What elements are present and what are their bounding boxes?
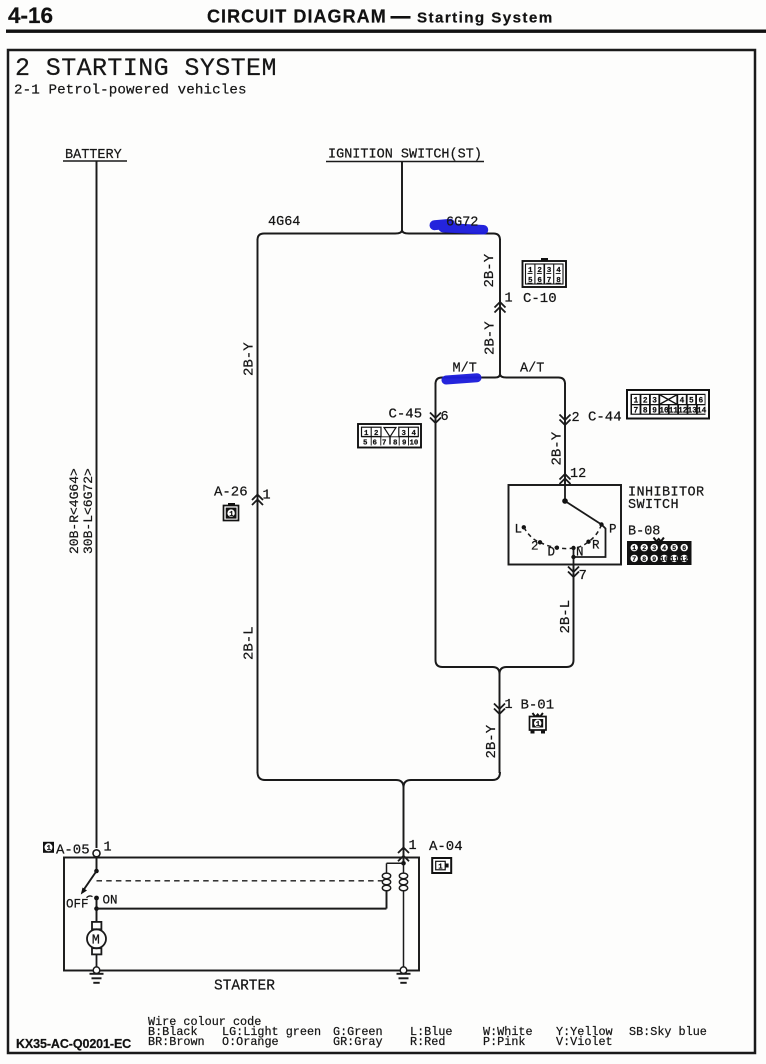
svg-text:11: 11 xyxy=(670,556,678,564)
svg-text:A-05: A-05 xyxy=(56,843,90,859)
wire merge brace MT/AT xyxy=(436,660,574,674)
svg-text:1: 1 xyxy=(364,430,369,438)
svg-text:7: 7 xyxy=(633,407,638,415)
svg-text:5: 5 xyxy=(363,440,368,448)
svg-text:2B-Y: 2B-Y xyxy=(483,321,499,355)
connector C-45 xyxy=(358,424,421,448)
svg-text:N: N xyxy=(576,546,584,560)
wire M/T branch vertical xyxy=(435,383,437,660)
svg-text:A/T: A/T xyxy=(520,362,544,377)
svg-text:11: 11 xyxy=(669,407,679,415)
wire solenoid feed xyxy=(97,908,387,910)
svg-text:1: 1 xyxy=(536,721,540,729)
svg-text:STARTER: STARTER xyxy=(214,979,275,995)
connector C-44 arrow xyxy=(560,415,571,426)
svg-text:P:Pink: P:Pink xyxy=(483,1035,525,1049)
wire inhibitor exit xyxy=(573,565,575,661)
svg-text:10: 10 xyxy=(659,407,669,415)
svg-text:8: 8 xyxy=(642,556,646,564)
svg-text:1: 1 xyxy=(104,841,112,856)
wire label 20B-R<4G64> 30B-L<6G72> xyxy=(67,468,96,554)
svg-text:2B-Y: 2B-Y xyxy=(482,253,498,287)
svg-text:P: P xyxy=(609,523,617,537)
svg-text:8: 8 xyxy=(643,407,648,415)
svg-text:M/T: M/T xyxy=(453,362,477,377)
wire A/T branch vertical xyxy=(564,383,566,485)
svg-text:1: 1 xyxy=(505,292,513,307)
svg-text:1: 1 xyxy=(229,511,234,519)
svg-text:20B-R<4G64>: 20B-R<4G64> xyxy=(67,468,82,554)
connector A-04 arrow xyxy=(398,848,409,862)
connector C-10 arrow xyxy=(495,302,506,313)
ground right xyxy=(400,967,407,974)
svg-text:7: 7 xyxy=(632,556,636,564)
svg-text:2-1 Petrol-powered vehicles: 2-1 Petrol-powered vehicles xyxy=(14,83,247,99)
svg-text:2B-Y: 2B-Y xyxy=(550,431,566,465)
svg-text:SB:Sky blue: SB:Sky blue xyxy=(629,1025,707,1039)
svg-text:M: M xyxy=(92,934,100,949)
wire M/T A/T brace split xyxy=(436,374,566,384)
svg-text:2: 2 xyxy=(531,540,539,554)
inhibitor switch box xyxy=(509,485,622,565)
svg-text:C-44: C-44 xyxy=(588,410,622,426)
blue marker highlight on M/T wire xyxy=(446,378,477,380)
connector A-05 circle xyxy=(93,850,100,857)
svg-text:7: 7 xyxy=(382,440,386,448)
svg-text:4-16: 4-16 xyxy=(8,3,53,28)
connector A-26 arrow xyxy=(252,495,263,506)
svg-text:4G64: 4G64 xyxy=(268,215,300,230)
wire merge brace bottom xyxy=(258,772,501,788)
connector icon B-01 xyxy=(530,713,547,734)
svg-text:1: 1 xyxy=(632,545,636,553)
svg-text:1: 1 xyxy=(633,397,638,405)
svg-text:6: 6 xyxy=(682,545,686,553)
wire top brace split xyxy=(258,230,501,240)
svg-text:KX35-AC-Q0201-EC: KX35-AC-Q0201-EC xyxy=(16,1037,131,1051)
svg-text:30B-L<6G72>: 30B-L<6G72> xyxy=(81,468,96,554)
svg-text:13: 13 xyxy=(688,407,698,415)
connector B-01 arrow xyxy=(494,704,505,715)
svg-text:6: 6 xyxy=(373,440,378,448)
svg-text:8: 8 xyxy=(393,440,398,448)
wire right branch vertical upper xyxy=(499,239,501,374)
blue marker highlight on 6G72 xyxy=(435,224,484,230)
svg-text:Starting System: Starting System xyxy=(417,10,554,27)
svg-text:1: 1 xyxy=(438,864,443,872)
svg-text:5: 5 xyxy=(528,277,533,285)
svg-text:2: 2 xyxy=(374,430,378,438)
svg-text:IGNITION SWITCH(ST): IGNITION SWITCH(ST) xyxy=(328,148,482,163)
svg-text:GR:Gray: GR:Gray xyxy=(333,1035,383,1049)
connector C-45 arrow xyxy=(430,413,441,424)
inhibitor internals xyxy=(565,485,606,565)
svg-text:5: 5 xyxy=(672,545,676,553)
svg-text:2: 2 xyxy=(643,397,648,405)
svg-text:B-08: B-08 xyxy=(628,525,660,540)
solenoid coils xyxy=(401,861,406,866)
svg-text:D: D xyxy=(548,546,556,560)
contact dots xyxy=(522,525,526,529)
svg-text:10: 10 xyxy=(660,556,668,564)
svg-text:12: 12 xyxy=(570,467,586,482)
svg-text:12: 12 xyxy=(680,556,688,564)
svg-text:C-45: C-45 xyxy=(389,407,423,423)
svg-text:5: 5 xyxy=(689,397,694,405)
wire left branch vertical xyxy=(257,239,259,773)
node BATTERY xyxy=(65,148,122,163)
svg-text:4: 4 xyxy=(680,397,685,405)
svg-text:2B-Y: 2B-Y xyxy=(484,724,500,758)
header rule xyxy=(6,30,766,33)
svg-text:4: 4 xyxy=(412,430,417,438)
svg-text:7: 7 xyxy=(579,568,587,584)
switch in starter xyxy=(96,857,98,871)
svg-text:1: 1 xyxy=(263,489,271,504)
svg-text:SWITCH: SWITCH xyxy=(628,498,679,513)
connector C-10 xyxy=(523,258,567,287)
svg-text:BR:Brown: BR:Brown xyxy=(148,1035,205,1049)
svg-text:O:Orange: O:Orange xyxy=(222,1035,279,1049)
svg-text:ON: ON xyxy=(103,894,118,908)
svg-text:8: 8 xyxy=(556,277,561,285)
svg-text:2 STARTING SYSTEM: 2 STARTING SYSTEM xyxy=(15,54,277,83)
svg-text:B-01: B-01 xyxy=(521,698,555,714)
svg-text:3: 3 xyxy=(652,397,657,405)
svg-text:2B-L: 2B-L xyxy=(242,626,258,660)
svg-text:V:Violet: V:Violet xyxy=(556,1035,613,1049)
svg-text:6: 6 xyxy=(441,410,449,425)
svg-text:CIRCUIT DIAGRAM: CIRCUIT DIAGRAM xyxy=(207,7,387,27)
pin 7 arrow xyxy=(568,567,579,578)
wire B-01 drop xyxy=(499,673,501,773)
pin 12 arrow into inhibitor xyxy=(560,474,571,484)
header text xyxy=(8,3,554,28)
wire battery vertical xyxy=(96,161,98,848)
svg-text:12: 12 xyxy=(678,407,688,415)
contact labels xyxy=(515,523,617,560)
motor M xyxy=(87,922,106,967)
connector icon A-26 xyxy=(224,503,239,521)
svg-text:1: 1 xyxy=(409,839,417,854)
connector icon A-05 xyxy=(43,842,54,853)
svg-text:C-10: C-10 xyxy=(523,291,557,307)
svg-text:4: 4 xyxy=(662,545,666,553)
wire ignition stub xyxy=(401,162,403,232)
svg-text:L: L xyxy=(515,523,523,537)
svg-text:6G72: 6G72 xyxy=(446,216,478,231)
dashed mechanical link xyxy=(97,880,383,882)
svg-text:OFF: OFF xyxy=(66,898,89,912)
wire colour legend xyxy=(148,1015,707,1049)
svg-text:3: 3 xyxy=(402,430,407,438)
svg-text:7: 7 xyxy=(547,277,552,285)
svg-text:6: 6 xyxy=(698,397,703,405)
connector icon A-04 xyxy=(432,858,451,873)
section titles xyxy=(14,54,277,99)
dashed selector arc xyxy=(524,525,602,549)
svg-text:3: 3 xyxy=(652,545,656,553)
starter box xyxy=(64,858,419,971)
svg-text:1: 1 xyxy=(505,698,513,713)
wire ON to motor xyxy=(96,898,98,923)
svg-text:2: 2 xyxy=(572,411,580,426)
svg-text:6: 6 xyxy=(537,277,542,285)
svg-text:9: 9 xyxy=(652,556,656,564)
ground left xyxy=(93,967,100,974)
svg-text:10: 10 xyxy=(410,440,419,448)
svg-text:14: 14 xyxy=(697,407,707,415)
svg-text:1: 1 xyxy=(47,845,52,853)
svg-text:A-04: A-04 xyxy=(429,839,463,855)
svg-text:2B-Y: 2B-Y xyxy=(242,342,258,376)
svg-text:2: 2 xyxy=(642,545,646,553)
connector C-44 xyxy=(627,390,709,419)
svg-text:9: 9 xyxy=(402,440,406,448)
node IGNITION SWITCH(ST) xyxy=(328,148,482,163)
svg-text:2B-L: 2B-L xyxy=(558,600,574,634)
svg-text:R: R xyxy=(592,539,600,553)
svg-text:R:Red: R:Red xyxy=(410,1035,445,1049)
wire starter drop xyxy=(403,786,405,862)
svg-text:A-26: A-26 xyxy=(214,485,248,501)
svg-text:9: 9 xyxy=(652,407,657,415)
